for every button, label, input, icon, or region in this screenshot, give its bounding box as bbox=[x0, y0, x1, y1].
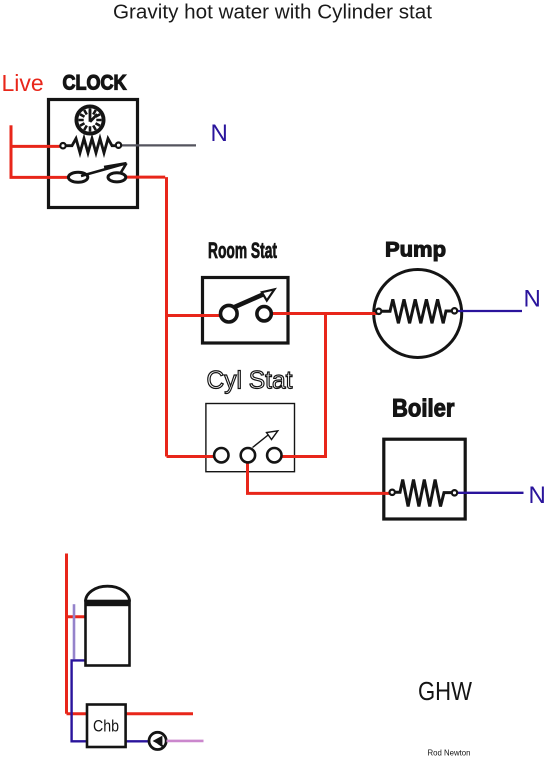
svg-text:Pump: Pump bbox=[385, 238, 446, 262]
clock switch element bbox=[68, 163, 126, 182]
wire cyl stat left terminal bbox=[167, 455, 223, 458]
room stat box S1 bbox=[203, 278, 289, 344]
svg-text:N: N bbox=[211, 120, 228, 147]
svg-text:Live: Live bbox=[2, 70, 44, 96]
hot water cylinder bbox=[86, 586, 130, 665]
wire pink pump output bbox=[167, 740, 204, 743]
cyl stat contacts bbox=[214, 431, 281, 463]
svg-text:Gravity hot water with Cylinde: Gravity hot water with Cylinder stat bbox=[113, 2, 432, 24]
svg-text:Chb: Chb bbox=[93, 717, 119, 736]
wire bottom red feed vertical and horizontal bbox=[67, 554, 194, 714]
wire red stub to cylinder bbox=[67, 615, 88, 618]
svg-text:Rod Newton: Rod Newton bbox=[428, 748, 471, 757]
wire purple cylinder stat feed bbox=[73, 604, 76, 659]
wire vertical clock to stats bbox=[165, 177, 168, 456]
wire cyl stat right terminal bbox=[278, 455, 327, 458]
svg-text:Room Stat: Room Stat bbox=[208, 238, 277, 263]
clock box U1 bbox=[49, 100, 138, 208]
svg-text:Cyl Stat: Cyl Stat bbox=[207, 367, 293, 395]
svg-text:CLOCK: CLOCK bbox=[63, 72, 127, 95]
wire pump to N bbox=[455, 310, 522, 312]
cyl stat box S2 bbox=[206, 404, 295, 472]
boiler box E1 bbox=[384, 439, 465, 519]
clock resistor element bbox=[60, 139, 121, 153]
wire clock switch output bbox=[125, 176, 166, 179]
wire room stat to pump bbox=[271, 312, 377, 315]
wire cyl stat common down to boiler bbox=[246, 458, 391, 493]
wire branch to room stat bbox=[167, 314, 223, 317]
clock face icon bbox=[76, 106, 103, 133]
wire live to clock switch bbox=[10, 176, 71, 179]
svg-text:GHW: GHW bbox=[418, 678, 472, 706]
svg-text:N: N bbox=[529, 482, 545, 509]
junction box Chb bbox=[87, 705, 126, 748]
pump resistor element bbox=[376, 299, 457, 323]
pump body circle M1 bbox=[374, 270, 462, 358]
circulating pump M2 bbox=[149, 732, 166, 749]
wire navy cylinder to Chb to pump bbox=[72, 660, 150, 741]
svg-text:N: N bbox=[524, 286, 541, 313]
wire branch down to cyl stat bbox=[324, 314, 327, 457]
room stat switch contacts bbox=[221, 289, 275, 322]
wire clock resistor to N (neutral) bbox=[121, 144, 197, 146]
wire live to clock resistor bbox=[10, 145, 62, 148]
svg-text:Boiler: Boiler bbox=[392, 395, 455, 423]
wire live vertical feed bbox=[10, 125, 13, 177]
boiler resistor element bbox=[390, 480, 458, 507]
wire boiler to N bbox=[455, 492, 524, 494]
